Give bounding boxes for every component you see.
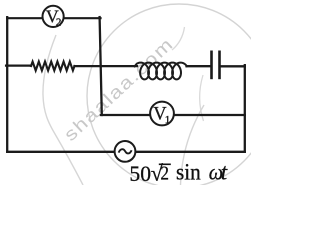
watermark right diagonal arc (181, 105, 205, 185)
capacitor C left plate (210, 52, 213, 78)
svg-text:sin: sin (176, 159, 201, 184)
wire left vertical (6, 17, 8, 152)
wire mid vertical (node between R and L) (100, 17, 102, 115)
svg-text:2: 2 (56, 16, 62, 28)
wire V1 branch (101, 114, 245, 116)
wire bottom (7, 151, 245, 153)
wire middle left stub (6, 64, 31, 66)
inductor L (135, 63, 187, 80)
watermark small arc (200, 75, 204, 121)
svg-text:t: t (221, 160, 228, 185)
wire resistor to inductor (75, 65, 138, 67)
wire inductor to capacitor (187, 65, 211, 67)
wire top (V2 branch) (7, 17, 100, 19)
watermark ring outer (43, 35, 83, 185)
label 50sqrt2 sin wt (129, 159, 227, 186)
voltmeter V1 (150, 102, 174, 126)
wire right vertical (244, 65, 246, 152)
svg-text:1: 1 (165, 114, 171, 126)
svg-text:2: 2 (160, 164, 169, 185)
wire capacitor to right (221, 65, 245, 67)
watermark stroke near .com (172, 27, 185, 50)
watermark ring inner (87, 4, 271, 188)
capacitor C right plate (218, 52, 221, 78)
resistor R (31, 62, 75, 71)
voltmeter V2 (43, 6, 64, 29)
ac source (115, 141, 136, 162)
svg-text:50: 50 (129, 161, 151, 185)
radical bar (159, 163, 171, 165)
